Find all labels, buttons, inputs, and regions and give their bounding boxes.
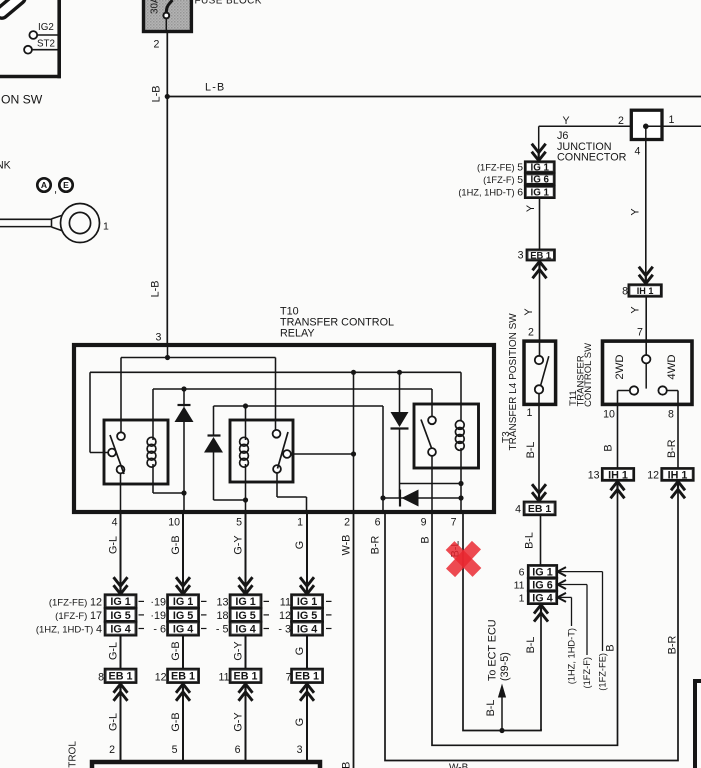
svg-text:7: 7 xyxy=(286,672,292,684)
svg-text:CONNECTOR: CONNECTOR xyxy=(557,151,627,163)
svg-text:G-Y: G-Y xyxy=(233,712,245,731)
svg-text:1: 1 xyxy=(103,221,109,233)
svg-text:3: 3 xyxy=(297,744,303,756)
svg-text:Y: Y xyxy=(562,115,569,127)
svg-text:6: 6 xyxy=(519,567,525,579)
svg-text:2WD: 2WD xyxy=(614,354,626,379)
svg-text:IG 6: IG 6 xyxy=(532,579,552,591)
svg-text:(1FZ-F): (1FZ-F) xyxy=(582,657,592,689)
svg-text:IG 1: IG 1 xyxy=(532,567,552,579)
svg-text:13: 13 xyxy=(588,469,600,481)
svg-text:12: 12 xyxy=(647,469,659,481)
svg-text:(1FZ-F) 17: (1FZ-F) 17 xyxy=(55,610,102,622)
svg-text:1: 1 xyxy=(297,517,303,529)
svg-text:IG 4: IG 4 xyxy=(173,623,193,635)
svg-text:A: A xyxy=(41,180,47,190)
svg-text:IG 1: IG 1 xyxy=(173,596,193,608)
svg-text:E: E xyxy=(63,180,69,190)
svg-text:5: 5 xyxy=(172,744,178,756)
svg-text:Y: Y xyxy=(630,306,642,313)
svg-text:4: 4 xyxy=(515,503,521,515)
svg-text:IG 4: IG 4 xyxy=(235,623,255,635)
svg-text:,: , xyxy=(54,184,57,196)
svg-text:4: 4 xyxy=(635,146,641,158)
svg-text:9: 9 xyxy=(421,517,427,529)
svg-text:Y: Y xyxy=(630,208,642,215)
svg-text:6: 6 xyxy=(235,744,241,756)
svg-text:2: 2 xyxy=(618,115,624,127)
svg-text:B-R: B-R xyxy=(667,636,679,655)
svg-text:4WD: 4WD xyxy=(666,354,678,379)
svg-text:6: 6 xyxy=(375,517,381,529)
svg-text:- 6: - 6 xyxy=(153,624,166,636)
svg-text:·19: ·19 xyxy=(150,597,166,609)
svg-text:- 3: - 3 xyxy=(278,624,291,636)
svg-text:B-L: B-L xyxy=(525,637,537,654)
svg-text:IG 5: IG 5 xyxy=(110,610,130,622)
svg-text:2: 2 xyxy=(109,744,115,756)
svg-text:(1HZ, 1HD-T) 4: (1HZ, 1HD-T) 4 xyxy=(36,624,102,636)
svg-text:EB 1: EB 1 xyxy=(295,671,319,683)
svg-text:IG 1: IG 1 xyxy=(530,187,549,198)
svg-text:(39-5): (39-5) xyxy=(499,652,511,681)
svg-text:EB 1: EB 1 xyxy=(530,249,551,260)
svg-text:L-B: L-B xyxy=(150,281,162,298)
svg-text:IG 6: IG 6 xyxy=(530,175,549,186)
svg-text:5: 5 xyxy=(236,517,242,529)
svg-text:18: 18 xyxy=(216,610,228,622)
svg-text:B-L: B-L xyxy=(525,442,537,459)
svg-text:B: B xyxy=(603,444,615,451)
svg-text:ON SW: ON SW xyxy=(1,93,43,107)
svg-text:8: 8 xyxy=(98,672,104,684)
svg-text:IG 5: IG 5 xyxy=(235,610,255,622)
svg-text:G-Y: G-Y xyxy=(233,535,245,554)
svg-text:8: 8 xyxy=(622,286,628,298)
svg-text:10: 10 xyxy=(168,517,180,529)
svg-text:7: 7 xyxy=(637,327,643,339)
svg-text:(1FZ-FE) 12: (1FZ-FE) 12 xyxy=(49,597,102,609)
svg-text:B: B xyxy=(420,536,432,543)
svg-text:B-L: B-L xyxy=(524,532,536,549)
svg-text:EB 1: EB 1 xyxy=(528,503,552,515)
svg-text:G-L: G-L xyxy=(108,536,120,554)
svg-text:RELAY: RELAY xyxy=(280,328,315,340)
svg-text:(1FZ-F) 5: (1FZ-F) 5 xyxy=(483,175,523,186)
svg-text:IH 1: IH 1 xyxy=(637,286,654,296)
svg-text:B-R: B-R xyxy=(666,439,678,458)
svg-text:G-B: G-B xyxy=(170,712,182,731)
svg-text:IG2: IG2 xyxy=(38,22,54,33)
svg-text:EB 1: EB 1 xyxy=(171,671,195,683)
svg-text:11: 11 xyxy=(514,579,525,591)
svg-text:IH 1: IH 1 xyxy=(608,469,628,481)
svg-text:EB 1: EB 1 xyxy=(234,671,258,683)
svg-text:1: 1 xyxy=(527,407,533,419)
svg-text:11: 11 xyxy=(280,597,291,609)
svg-text:W-B: W-B xyxy=(449,763,469,768)
svg-text:(1FZ-FE) 5: (1FZ-FE) 5 xyxy=(477,163,523,174)
svg-text:TRANSFER L4 POSITION SW: TRANSFER L4 POSITION SW xyxy=(508,313,519,451)
svg-text:CONTROL: CONTROL xyxy=(68,741,79,768)
svg-text:2: 2 xyxy=(154,39,160,51)
svg-text:4: 4 xyxy=(112,517,118,529)
svg-text:G: G xyxy=(294,718,306,726)
svg-text:2: 2 xyxy=(344,517,350,529)
svg-text:11: 11 xyxy=(219,672,230,684)
svg-text:13: 13 xyxy=(216,597,228,609)
svg-text:3: 3 xyxy=(156,332,162,344)
svg-text:B-R: B-R xyxy=(370,536,382,555)
svg-text:1: 1 xyxy=(519,592,525,604)
svg-text:7: 7 xyxy=(451,517,457,529)
svg-text:To ECT ECU: To ECT ECU xyxy=(487,619,499,681)
svg-text:12: 12 xyxy=(279,610,291,622)
svg-text:W-B: W-B xyxy=(341,762,353,768)
svg-text:(1HZ, 1HD-T): (1HZ, 1HD-T) xyxy=(567,628,577,684)
svg-text:30A: 30A xyxy=(150,0,161,14)
svg-text:IG 1: IG 1 xyxy=(297,596,317,608)
svg-text:CONTROL SW: CONTROL SW xyxy=(583,343,594,407)
svg-text:(1HZ, 1HD-T) 6: (1HZ, 1HD-T) 6 xyxy=(458,188,523,199)
svg-text:W-B: W-B xyxy=(341,535,353,556)
svg-text:G-B: G-B xyxy=(170,535,182,554)
svg-text:- 5: - 5 xyxy=(216,624,229,636)
svg-text:2: 2 xyxy=(528,327,534,339)
svg-text:ST2: ST2 xyxy=(37,39,55,50)
svg-text:B-L: B-L xyxy=(485,700,497,717)
svg-text:·19: ·19 xyxy=(150,610,166,622)
svg-text:10: 10 xyxy=(603,409,615,421)
svg-text:G-L: G-L xyxy=(108,642,120,660)
svg-text:IG 5: IG 5 xyxy=(173,610,193,622)
svg-text:L-B: L-B xyxy=(205,82,225,94)
svg-text:IG 1: IG 1 xyxy=(110,596,130,608)
svg-text:IG 5: IG 5 xyxy=(297,610,317,622)
svg-text:Y: Y xyxy=(523,308,535,315)
svg-text:G-Y: G-Y xyxy=(233,641,245,660)
svg-text:IH 1: IH 1 xyxy=(668,469,688,481)
svg-text:L-B: L-B xyxy=(151,86,163,103)
svg-text:8: 8 xyxy=(668,409,674,421)
svg-text:NK: NK xyxy=(0,160,11,172)
svg-text:3: 3 xyxy=(518,250,524,262)
svg-text:12: 12 xyxy=(155,672,167,684)
svg-text:B: B xyxy=(605,644,617,651)
svg-text:(1FZ-FE): (1FZ-FE) xyxy=(598,653,608,691)
svg-text:1: 1 xyxy=(669,114,675,126)
svg-text:G: G xyxy=(294,647,306,655)
svg-text:IG 4: IG 4 xyxy=(110,623,130,635)
svg-text:Y: Y xyxy=(525,205,537,212)
svg-text:G-L: G-L xyxy=(108,713,120,731)
svg-text:IG 1: IG 1 xyxy=(235,596,255,608)
svg-text:FUSE BLOCK: FUSE BLOCK xyxy=(195,0,262,7)
svg-text:G: G xyxy=(294,541,306,549)
svg-text:IG 4: IG 4 xyxy=(297,623,317,635)
svg-text:G-B: G-B xyxy=(170,641,182,660)
svg-text:EB 1: EB 1 xyxy=(109,671,133,683)
svg-text:IG 4: IG 4 xyxy=(532,592,552,604)
svg-text:IG 1: IG 1 xyxy=(530,163,549,174)
